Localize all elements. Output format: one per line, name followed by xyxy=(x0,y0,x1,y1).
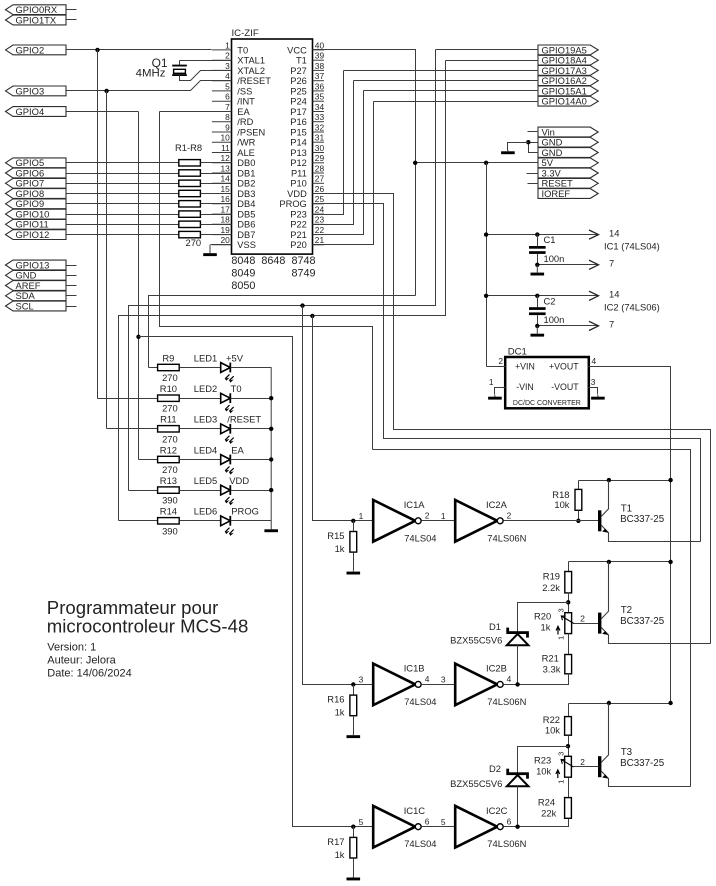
connector AREF xyxy=(6,280,67,291)
LED LED2 xyxy=(221,393,234,413)
label T3 reference xyxy=(621,747,633,758)
label IC1 74LS04 xyxy=(604,240,660,251)
svg-text:74LS06N: 74LS06N xyxy=(487,532,526,543)
junction 5V C1 node xyxy=(484,232,488,236)
svg-text:3: 3 xyxy=(557,608,566,612)
wire GPIO11 to R7 xyxy=(67,224,179,226)
connector GPIO10 xyxy=(6,209,67,220)
svg-text:8749: 8749 xyxy=(292,268,316,280)
label IC2A reference xyxy=(486,499,508,510)
pin label -VOUT xyxy=(551,382,579,392)
svg-text:1k: 1k xyxy=(335,849,345,860)
wire IC2 pin 7 ground xyxy=(538,325,599,327)
wire -VOUT pin 3 to ground xyxy=(589,388,598,395)
svg-text:8049: 8049 xyxy=(231,268,255,280)
svg-text:3: 3 xyxy=(225,61,230,71)
svg-text:D2: D2 xyxy=(489,763,501,774)
svg-text:GPIO3: GPIO3 xyxy=(16,85,45,96)
wire crystal to XTAL2 pin 3 xyxy=(180,71,232,81)
wire GPIO16A2 horizontal xyxy=(354,80,539,82)
connector GPIO4 xyxy=(6,106,67,117)
wire R10 to LED2 xyxy=(180,398,221,400)
label IC-ZIF reference xyxy=(232,28,259,39)
pin 24 (P23) stub xyxy=(313,213,325,215)
connector 5V header xyxy=(538,157,598,168)
svg-text:PROG: PROG xyxy=(231,506,259,517)
pin 12 (DB0) stub xyxy=(212,162,232,164)
label supported chips 8049 8749 xyxy=(231,268,255,280)
pin number 12 xyxy=(220,153,230,163)
connector GPIO19A5 xyxy=(538,44,598,55)
svg-text:270: 270 xyxy=(162,403,178,414)
svg-text:R10: R10 xyxy=(160,383,177,394)
svg-text:P21: P21 xyxy=(290,230,307,240)
svg-text:IC1C: IC1C xyxy=(404,805,426,816)
label net T0 xyxy=(231,383,242,394)
svg-text:25: 25 xyxy=(315,194,325,204)
connector RESET header xyxy=(538,178,598,189)
svg-text:IC2A: IC2A xyxy=(486,499,508,510)
svg-text:R23: R23 xyxy=(534,755,551,766)
label Date 14/06/2024 xyxy=(47,667,131,679)
pin 21 (P20) stub xyxy=(313,244,325,246)
inverter IC1C 74LS04 xyxy=(373,806,421,848)
pin label +VOUT xyxy=(549,361,579,371)
pin number 4 IC1B output xyxy=(425,674,430,684)
svg-text:T2: T2 xyxy=(621,605,632,616)
svg-text:5: 5 xyxy=(359,817,364,827)
label R13 value xyxy=(162,495,178,506)
connector 3.3V header xyxy=(538,167,598,178)
pin label +VIN xyxy=(515,361,535,371)
wire GPIO19A5 to rail xyxy=(436,49,539,51)
junction +VOUT T2 node xyxy=(668,560,672,564)
label IC1C reference xyxy=(404,805,426,816)
svg-text:1: 1 xyxy=(557,636,566,640)
pin name EA xyxy=(237,107,250,117)
inverter IC1A 74LS04 xyxy=(373,500,421,542)
label IC1 pin 7 xyxy=(609,258,614,269)
svg-text:P13: P13 xyxy=(290,148,307,158)
svg-text:EA: EA xyxy=(231,444,244,455)
junction VCC 5V node xyxy=(413,161,417,165)
pin name P26 xyxy=(290,76,307,86)
pin 34 (P17) stub xyxy=(313,111,325,113)
wire D1 cathode branch xyxy=(518,603,569,632)
svg-text:LED1: LED1 xyxy=(194,352,217,363)
pin number 4 xyxy=(225,71,230,81)
svg-text:2: 2 xyxy=(580,757,585,767)
pin name T1 xyxy=(296,56,307,66)
label R14 value xyxy=(162,525,178,536)
pin number 5 xyxy=(225,81,230,91)
svg-text:ALE: ALE xyxy=(237,148,255,158)
pin number 2 R23 xyxy=(580,757,585,767)
label R23 reference xyxy=(534,755,551,766)
label LED4 reference xyxy=(194,444,217,455)
junction R16 node xyxy=(351,682,355,686)
svg-text:EA: EA xyxy=(237,107,250,117)
pin name P16 xyxy=(290,117,307,127)
svg-text:10k: 10k xyxy=(545,725,560,736)
pin 4 (/RESET) stub xyxy=(212,80,232,82)
pin number 19 xyxy=(220,225,230,235)
wire IC1A to IC2A xyxy=(422,520,456,522)
LED LED1 xyxy=(221,363,234,383)
svg-text:6: 6 xyxy=(425,816,430,826)
pin 23 (P22) stub xyxy=(313,223,325,225)
svg-text:74LS06N: 74LS06N xyxy=(487,838,526,849)
label T2 reference xyxy=(621,605,632,616)
svg-text:20: 20 xyxy=(220,235,230,245)
svg-text:/RD: /RD xyxy=(237,117,253,127)
resistor R1 xyxy=(179,160,201,166)
svg-text:4: 4 xyxy=(592,356,597,366)
pin number 2 R20 xyxy=(580,614,585,624)
pin number 1 IC2A input xyxy=(441,511,446,521)
svg-text:4: 4 xyxy=(425,674,430,684)
pin 30 (P13) stub xyxy=(313,152,325,154)
wire R15 top lead xyxy=(353,521,355,532)
inverter IC2B 74LS06 xyxy=(455,664,503,706)
junction GPIO2 node xyxy=(95,48,99,52)
svg-text:5: 5 xyxy=(225,81,230,91)
pin name XTAL1 xyxy=(237,56,265,66)
wire LED6 cathode xyxy=(231,520,272,522)
wire AREF stub xyxy=(67,285,77,287)
pin name ALE xyxy=(237,148,255,158)
wire IC2A output to T1 base xyxy=(504,520,599,522)
wire GPIO6 to R2 xyxy=(67,173,179,175)
svg-text:T3: T3 xyxy=(621,747,633,758)
svg-text:VSS: VSS xyxy=(237,240,256,250)
svg-text:GPIO14A0: GPIO14A0 xyxy=(542,96,587,107)
wire R19 top lead xyxy=(568,562,570,572)
pin 27 (P10) stub xyxy=(313,182,325,184)
label R19 reference xyxy=(543,571,560,582)
svg-text:5: 5 xyxy=(441,817,446,827)
junction GPIO4 branch node xyxy=(136,335,140,339)
wire EA pin 7 routing xyxy=(160,112,373,450)
wire VCC pin 40 rail xyxy=(313,50,416,296)
wire GPIO2 to T0 pin 1 xyxy=(67,49,212,51)
label R1-R8 reference xyxy=(175,142,202,153)
label IC2 74LS06 xyxy=(604,302,660,313)
label R23 value 10k xyxy=(536,765,551,776)
wire +VOUT pin 4 rail xyxy=(589,367,671,704)
pin number 15 xyxy=(220,184,230,194)
pin name P13 xyxy=(290,148,307,158)
svg-text:28: 28 xyxy=(315,163,325,173)
pin 13 (DB1) stub xyxy=(212,172,232,174)
resistor R24 xyxy=(565,798,572,819)
svg-text:DB0: DB0 xyxy=(237,158,255,168)
capacitor C2 xyxy=(529,296,546,326)
pin 8 (/RD) stub xyxy=(212,121,232,123)
svg-text:270: 270 xyxy=(162,372,178,383)
label LED5 reference xyxy=(194,475,217,486)
resistor R12 xyxy=(158,456,180,462)
pin name DB2 xyxy=(237,179,255,189)
inverter IC1B 74LS04 xyxy=(373,664,421,706)
svg-text:P10: P10 xyxy=(290,179,307,189)
pin 37 (P26) stub xyxy=(313,80,325,82)
pin 35 (P24) stub xyxy=(313,100,325,102)
junction LED rail node xyxy=(269,488,273,492)
svg-text:P20: P20 xyxy=(290,240,307,250)
svg-text:P24: P24 xyxy=(290,97,307,107)
pin name P20 xyxy=(290,240,307,250)
connector GPIO15A1 xyxy=(538,85,598,96)
pin name P11 xyxy=(291,168,307,178)
label D2 reference xyxy=(489,763,501,774)
junction GPIO19A5 gate branch xyxy=(300,303,304,307)
pin 7 (EA) stub xyxy=(212,111,232,113)
connector GND header xyxy=(538,147,598,158)
svg-text:2.2k: 2.2k xyxy=(542,582,560,593)
junction +VOUT T1 node xyxy=(668,478,672,482)
label supported chip 8050 xyxy=(231,280,255,292)
ground at VSS xyxy=(203,245,217,256)
connector GPIO2 xyxy=(6,44,67,55)
wire GPIO12 to R8 xyxy=(67,234,179,236)
pin 20 (VSS) stub xyxy=(212,244,232,246)
arrow to IC1 pin 7 xyxy=(589,260,599,269)
label Version 1 xyxy=(47,641,96,653)
svg-text:P11: P11 xyxy=(291,168,307,178)
svg-text:R16: R16 xyxy=(327,694,344,705)
svg-text:6: 6 xyxy=(507,816,512,826)
wire 5V rail vertical xyxy=(486,163,488,367)
svg-text:14: 14 xyxy=(220,174,230,184)
resistor R4 xyxy=(179,190,201,196)
label IC1B value 74LS04 xyxy=(404,696,436,707)
svg-text:/SS: /SS xyxy=(237,86,252,96)
pin number 26 xyxy=(315,184,325,194)
label R15 reference xyxy=(327,530,344,541)
transistor T3 BC337-25 xyxy=(598,704,691,787)
pin number 37 xyxy=(315,71,325,81)
wire IC2B output to R21 D1 xyxy=(504,674,569,685)
ground at C2 xyxy=(531,326,545,337)
pin number 11 xyxy=(221,143,230,153)
inverter IC2C 74LS06 xyxy=(455,806,503,848)
svg-text:7: 7 xyxy=(609,258,614,269)
pin 1 (T0) stub xyxy=(212,49,232,51)
pin number 35 xyxy=(315,92,325,102)
svg-text:BC337-25: BC337-25 xyxy=(620,514,665,525)
svg-text:/PSEN: /PSEN xyxy=(237,127,265,137)
wire GPIO18A4 to rail xyxy=(446,60,539,62)
wire GPIO8 to R4 xyxy=(67,193,179,195)
label IC1C value 74LS04 xyxy=(404,838,436,849)
svg-text:R21: R21 xyxy=(542,653,559,664)
label T1 value BC337-25 xyxy=(620,514,665,525)
pin name P12 xyxy=(290,158,307,168)
label net +5V xyxy=(226,352,244,363)
ground at GND header xyxy=(501,150,515,154)
svg-text:T1: T1 xyxy=(296,56,307,66)
wire R22 to R23 xyxy=(568,736,570,757)
wire LED5 cathode xyxy=(231,490,272,492)
junction C1 bottom node xyxy=(535,263,539,267)
wire R18 bottom lead xyxy=(578,511,580,521)
wire IC1C to IC2C xyxy=(422,826,456,828)
junction T3 collector node xyxy=(607,701,611,705)
svg-text:DC/DC CONVERTER: DC/DC CONVERTER xyxy=(513,400,581,407)
wire T1 collector top xyxy=(579,480,671,482)
pin name P14 xyxy=(290,138,307,148)
svg-text:10: 10 xyxy=(220,133,230,143)
svg-text:microcontroleur MCS-48: microcontroleur MCS-48 xyxy=(47,616,249,637)
wire GND pair link xyxy=(529,143,539,153)
pin 26 (VDD) stub xyxy=(313,193,325,195)
wire feed to R13 xyxy=(129,490,158,492)
label R15 value 1k xyxy=(335,543,345,554)
svg-text:10k: 10k xyxy=(536,765,551,776)
junction R19 R20 D1 node xyxy=(566,600,570,604)
wire IC2 pin 14 supply xyxy=(487,295,599,297)
wire GPIO16A2 down to P22 pin 23 xyxy=(313,81,354,225)
svg-text:3: 3 xyxy=(441,675,446,685)
wire GPIO3 rail down xyxy=(106,91,108,429)
svg-text:IOREF: IOREF xyxy=(542,188,571,199)
pin number 10 xyxy=(220,133,230,143)
wire EA to T3 emitter rail xyxy=(373,450,691,787)
svg-text:R13: R13 xyxy=(160,475,177,486)
wire GPIO7 to R3 xyxy=(67,183,179,185)
pin 16 (DB4) stub xyxy=(212,203,232,205)
label supported chips 8048 8648 8748 xyxy=(231,255,255,267)
wire 5V to +VIN pin 2 xyxy=(487,366,506,368)
label R16 reference xyxy=(327,694,344,705)
label R18 reference xyxy=(552,489,569,500)
svg-text:SCL: SCL xyxy=(16,300,34,311)
pin name T0 xyxy=(237,45,248,55)
svg-text:37: 37 xyxy=(315,71,325,81)
connector GPIO7 xyxy=(6,178,67,189)
wire T3 collector top xyxy=(569,703,671,705)
label R12 value xyxy=(162,464,178,475)
svg-text:1k: 1k xyxy=(335,543,345,554)
label R22 reference xyxy=(543,714,560,725)
svg-text:/RESET: /RESET xyxy=(237,76,271,86)
wire R13 to LED5 xyxy=(180,490,221,492)
junction R22 R23 D2 node xyxy=(566,744,570,748)
resistor R16 xyxy=(350,695,357,716)
wire VCC branch to R9 xyxy=(149,296,416,368)
label R24 value 22k xyxy=(541,807,556,818)
label C1 value 100n xyxy=(544,253,565,264)
label LED6 reference xyxy=(194,506,217,517)
resistor R18 xyxy=(575,489,582,510)
LED LED5 xyxy=(221,485,234,505)
svg-text:4MHz: 4MHz xyxy=(136,68,166,80)
svg-text:-VOUT: -VOUT xyxy=(551,382,579,392)
arrow to IC1 pin 14 xyxy=(589,230,599,239)
LED LED4 xyxy=(221,455,234,475)
pin name /PSEN xyxy=(237,127,265,137)
wire feed to R10 xyxy=(98,398,158,400)
connector SCL xyxy=(6,300,67,311)
pin number 30 xyxy=(315,143,325,153)
junction LED rail node xyxy=(269,396,273,400)
svg-text:100n: 100n xyxy=(544,314,565,325)
wire EA pin 7 horizontal xyxy=(160,111,232,113)
svg-text:P14: P14 xyxy=(290,138,307,148)
connector SDA xyxy=(6,290,67,301)
wire 5V net horizontal xyxy=(416,162,539,164)
crystal Q1 xyxy=(172,66,187,76)
svg-text:74LS04: 74LS04 xyxy=(404,696,436,707)
pin number 13 xyxy=(220,163,230,173)
wire GPIO14A0 down to P20 pin 21 xyxy=(313,102,374,245)
arrow to IC2 pin 14 xyxy=(589,291,599,300)
pin name DB4 xyxy=(237,199,255,209)
svg-text:7: 7 xyxy=(609,319,614,330)
svg-text:3: 3 xyxy=(591,377,596,387)
pin number 3 IC2B input xyxy=(441,675,446,685)
svg-text:30: 30 xyxy=(315,143,325,153)
svg-text:22k: 22k xyxy=(541,807,556,818)
pin number 16 xyxy=(220,194,230,204)
connector GPIO1TX xyxy=(6,14,67,25)
svg-text:XTAL2: XTAL2 xyxy=(237,66,265,76)
resistor R14 xyxy=(158,518,180,524)
junction T2 collector node xyxy=(607,560,611,564)
IC U-ZIF socket body xyxy=(232,39,313,254)
label R21 value 3.3k xyxy=(543,663,561,674)
wire GPIO5 to R1 xyxy=(67,162,179,164)
svg-text:8748: 8748 xyxy=(292,255,316,267)
label LED3 reference xyxy=(194,414,217,425)
svg-text:IC2C: IC2C xyxy=(486,805,508,816)
svg-text:DC1: DC1 xyxy=(508,346,527,357)
pin number 27 xyxy=(315,174,325,184)
svg-text:74LS04: 74LS04 xyxy=(404,532,436,543)
wire XTAL1 pin 2 to crystal xyxy=(180,60,232,62)
connector GPIO16A2 xyxy=(538,75,598,86)
label R16 value 1k xyxy=(335,707,345,718)
label T3 value BC337-25 xyxy=(620,758,665,769)
svg-text:P23: P23 xyxy=(290,210,307,220)
connector GPIO6 xyxy=(6,167,67,178)
svg-text:PROG: PROG xyxy=(279,199,306,209)
svg-text:DB3: DB3 xyxy=(237,189,255,199)
ground at R16 xyxy=(347,734,361,738)
wire R23 wiper to T3 base xyxy=(574,766,599,768)
label R20 value 1k xyxy=(540,621,550,632)
pin name VCC xyxy=(287,45,307,55)
pin number 20 xyxy=(220,235,230,245)
pin 36 (P25) stub xyxy=(313,90,325,92)
svg-text:3: 3 xyxy=(556,752,565,756)
wire 3.3V stub xyxy=(527,173,539,175)
wire GPIO13 stub xyxy=(67,265,77,267)
pin number 24 xyxy=(315,205,325,215)
junction D2 anode node xyxy=(515,825,519,829)
svg-text:C2: C2 xyxy=(544,295,556,306)
svg-text:4: 4 xyxy=(507,674,512,684)
svg-text:IC1 (74LS04): IC1 (74LS04) xyxy=(604,240,660,251)
title Programmateur pour microcontroleur MCS-48 xyxy=(47,597,219,618)
wire feed to R9 xyxy=(149,367,158,369)
svg-text:VDD: VDD xyxy=(229,475,249,486)
wire GPIO19A5 VDD-drive branch xyxy=(129,50,436,491)
resistor R3 xyxy=(179,180,201,186)
label Q1 value 4MHz xyxy=(136,68,166,80)
svg-text:Version: 1: Version: 1 xyxy=(47,641,96,653)
